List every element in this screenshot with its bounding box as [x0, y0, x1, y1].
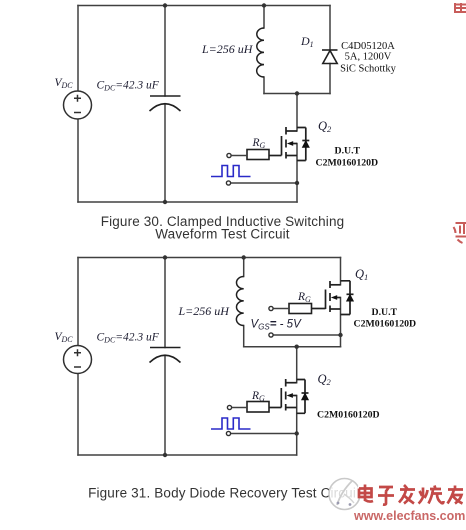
Q2 body diode triangle (fig31) — [302, 393, 309, 400]
Q2 body arrow (fig31) — [287, 393, 293, 398]
svg-text:Q2: Q2 — [318, 372, 332, 387]
wire: fig30 Q2 source wire — [296, 144, 298, 203]
char 烧 — [419, 486, 444, 504]
pulse waveform (fig30) — [211, 166, 251, 177]
svg-text:RG: RG — [251, 390, 265, 403]
wire: fig31 left rail lower — [77, 374, 79, 456]
svg-text:D1: D1 — [300, 34, 314, 49]
gate input terminal lower (fig31) — [227, 405, 231, 409]
char 发 — [399, 485, 415, 504]
watermark logo circle — [329, 479, 360, 510]
wire: fig30 left rail upper — [77, 6, 79, 92]
wire: fig30 gate return wire — [231, 182, 298, 184]
pulse waveform (fig31) — [211, 418, 251, 429]
wire: gate terminal to RG (fig30) — [231, 155, 247, 157]
wire: fig31 Q1 source wire — [340, 298, 342, 347]
wire: fig31 left rail upper — [77, 258, 79, 346]
wire: fig30 inductor branch bottom stub — [263, 77, 265, 94]
watermark fragment top right — [455, 3, 466, 13]
svg-text:D.U.T: D.U.T — [335, 146, 361, 157]
voltage source V_DC (fig30) — [64, 91, 92, 119]
watermark chinese characters 电子发烧友 (white emboss layer) — [358, 484, 462, 504]
diode D1 (fig30) — [322, 50, 338, 64]
svg-text:C2M0160120D: C2M0160120D — [317, 409, 380, 420]
return terminal lower (fig31) — [226, 431, 230, 435]
wire: fig30 diode branch lower — [329, 64, 331, 94]
wire: fig31 lower return wire — [231, 433, 297, 435]
wire: fig30 top rail — [78, 5, 330, 7]
char 友 — [448, 486, 464, 504]
svg-text:RG: RG — [297, 291, 311, 304]
wire: fig30 inductor branch top stub — [263, 6, 265, 29]
Q2 body diode triangle (fig30) — [302, 141, 309, 148]
transistor Q2 (fig31 MOSFET) — [269, 379, 309, 413]
resistor RG lower (fig31) — [247, 402, 269, 413]
svg-text:Q1: Q1 — [355, 267, 368, 282]
wire: fig30 left rail lower — [77, 119, 79, 202]
svg-text:L=256 uH: L=256 uH — [178, 304, 231, 318]
wire: fig30 capacitor branch lower — [164, 104, 166, 202]
wire: fig31 capacitor branch lower — [164, 356, 166, 456]
svg-text:RG: RG — [252, 137, 266, 150]
svg-text:C4D05120A: C4D05120A — [341, 41, 395, 52]
svg-text:5A, 1200V: 5A, 1200V — [345, 52, 392, 63]
svg-text:VDC: VDC — [55, 331, 74, 344]
wire: fig30 loop bottom wire — [264, 93, 330, 95]
junction dots (fig31) — [163, 255, 343, 457]
svg-text:VDC: VDC — [55, 77, 74, 90]
wire: gate terminal to RG lower (fig31) — [232, 407, 247, 409]
svg-text:VGS= - 5V: VGS= - 5V — [251, 319, 303, 332]
return terminal (fig30) — [226, 181, 230, 185]
inductor L (fig31) — [236, 277, 243, 326]
svg-text:CDC=42.3 uF: CDC=42.3 uF — [97, 332, 160, 345]
transistor Q1 (fig31 MOSFET D.U.T) — [312, 281, 354, 315]
wire: fig31 inductor top stub — [243, 258, 245, 277]
gate input terminal (fig30) — [227, 153, 231, 157]
wire: fig31 upper loop bottom wire — [244, 346, 341, 348]
wire: fig31 inductor bottom stub — [243, 326, 245, 347]
svg-text:www.elecfans.com: www.elecfans.com — [353, 509, 465, 523]
svg-text:C2M0160120D: C2M0160120D — [316, 157, 379, 168]
svg-text:D.U.T: D.U.T — [372, 307, 398, 318]
wire: fig30 bottom rail — [78, 201, 297, 203]
wire: fig31 Q1 drain wire — [340, 258, 342, 285]
capacitor C_DC (fig31) — [150, 348, 181, 363]
wire: gate terminal to RG upper (fig31) — [273, 308, 289, 310]
wire: fig31 upper return wire — [273, 334, 341, 336]
wire: fig31 bottom rail — [78, 454, 297, 456]
svg-text:L=256 uH: L=256 uH — [201, 42, 254, 56]
svg-text:SiC Schottky: SiC Schottky — [340, 64, 396, 75]
Q2 body arrow (fig30) — [287, 141, 293, 146]
wire: fig30 Q2 drain wire — [296, 94, 298, 132]
inductor L (fig30) — [257, 28, 264, 77]
voltage source V_DC (fig31) — [64, 346, 92, 374]
resistor RG (fig30) — [247, 150, 269, 160]
svg-text:CDC=42.3 uF: CDC=42.3 uF — [97, 80, 160, 93]
transistor Q2 (fig30 MOSFET) — [269, 127, 309, 161]
wire: fig31 Q2 source wire — [296, 396, 298, 456]
svg-text:Figure 31. Body Diode Recovery: Figure 31. Body Diode Recovery Test Circ… — [88, 485, 360, 500]
Q1 body arrow (fig31) — [331, 295, 337, 300]
char 子 — [378, 487, 394, 505]
wire: fig31 top rail — [78, 257, 341, 259]
char 电 — [359, 485, 373, 502]
wire: fig30 diode branch upper — [329, 6, 331, 51]
svg-text:Waveform Test Circuit: Waveform Test Circuit — [155, 227, 290, 242]
return terminal upper (fig31) — [269, 333, 273, 337]
wire: fig30 capacitor branch upper — [164, 6, 166, 97]
wire: fig31 capacitor branch upper — [164, 258, 166, 348]
wire: fig31 Q2 drain wire — [296, 347, 298, 383]
svg-text:C2M0160120D: C2M0160120D — [354, 318, 417, 329]
junction dots (fig30) — [163, 3, 299, 204]
Q1 body diode triangle (fig31) — [347, 295, 354, 302]
watermark chinese characters 电子发烧友 — [359, 485, 463, 505]
resistor RG upper (fig31) — [289, 304, 312, 314]
svg-text:Q2: Q2 — [318, 119, 332, 134]
capacitor C_DC (fig30) — [150, 96, 181, 111]
watermark fragment right edge — [454, 223, 466, 243]
gate input terminal upper (fig31) — [269, 306, 273, 310]
